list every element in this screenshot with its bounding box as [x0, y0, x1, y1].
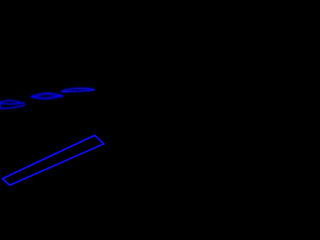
slab A core: [0, 100, 24, 109]
slab C glow: [62, 88, 95, 91]
slab B glow: [32, 94, 63, 99]
slab B core: [32, 94, 63, 99]
slab A glow: [0, 100, 24, 109]
plank D: [2, 135, 103, 185]
slab C core: [62, 88, 95, 91]
